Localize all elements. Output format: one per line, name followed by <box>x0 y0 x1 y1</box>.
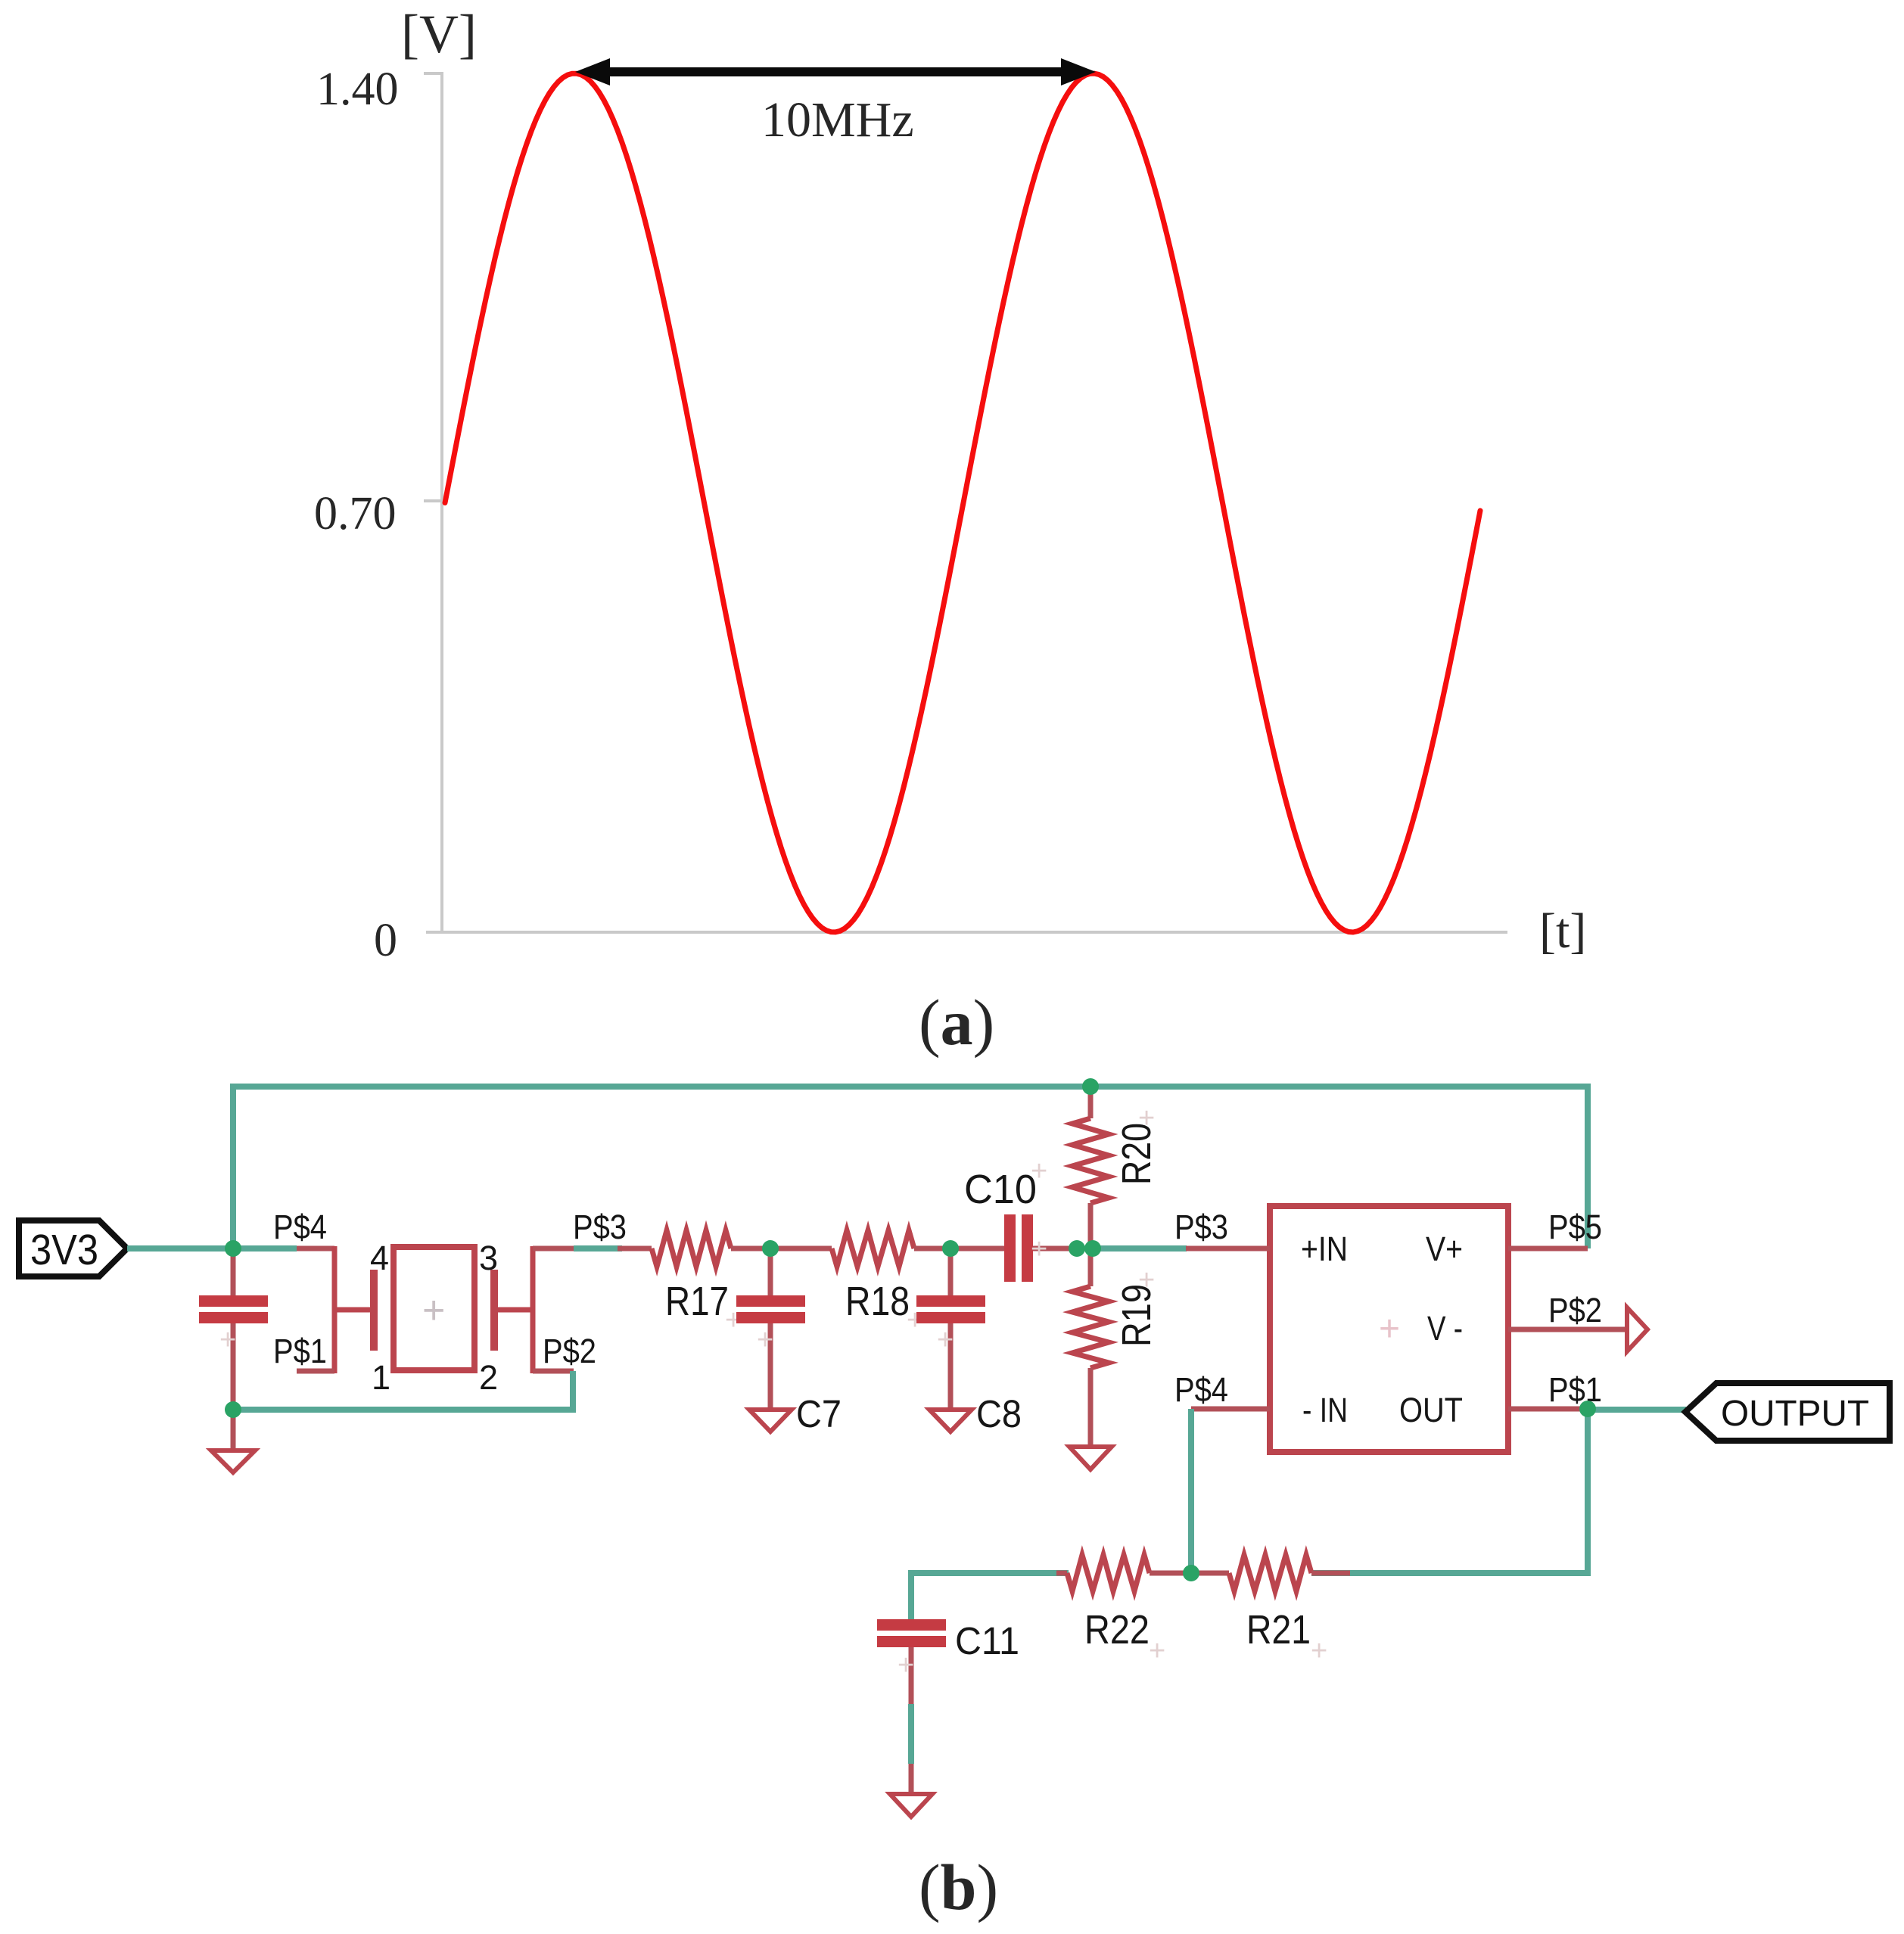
svg-text:R21: R21 <box>1246 1607 1311 1653</box>
resistor R18 <box>832 1230 1004 1267</box>
svg-text:2: 2 <box>479 1358 498 1397</box>
op-amp pin V- <box>1508 1327 1627 1332</box>
svg-text:+: + <box>1031 1233 1047 1265</box>
junction R17 C7 <box>762 1240 779 1257</box>
resistor R21 <box>1229 1555 1350 1591</box>
svg-text:+: + <box>937 1324 954 1356</box>
svg-text:+: + <box>1379 1309 1400 1349</box>
capacitor C7 <box>736 1248 805 1410</box>
junction OUT <box>1579 1401 1596 1417</box>
resistor R17 <box>618 1230 832 1267</box>
wire 3V3 to crystal <box>127 1245 297 1252</box>
svg-text:P$4: P$4 <box>1174 1370 1228 1409</box>
svg-text:C10: C10 <box>964 1167 1037 1212</box>
wire crystal P$2 to ground rail <box>233 1371 573 1410</box>
svg-text:P$2: P$2 <box>543 1332 596 1370</box>
wire top supply rail <box>233 1087 1588 1248</box>
svg-text:+: + <box>422 1289 445 1332</box>
resistor R20 <box>1072 1087 1109 1248</box>
svg-text:P$1: P$1 <box>273 1332 327 1370</box>
wire -IN down to feedback node <box>1188 1409 1194 1573</box>
supply flag 3V3 <box>19 1220 127 1276</box>
ground symbol C8 <box>929 1410 972 1432</box>
junction R18 C8 <box>942 1240 959 1257</box>
op-amp pin V+ <box>1508 1246 1588 1252</box>
svg-text:3V3: 3V3 <box>30 1226 98 1274</box>
period arrow 10MHz <box>575 58 1096 86</box>
svg-text:(b): (b) <box>919 1851 998 1923</box>
svg-text:OUT: OUT <box>1399 1391 1463 1429</box>
ground symbol at bypass cap <box>211 1410 255 1472</box>
wire feedback row to C11 <box>911 1573 1069 1619</box>
junction 3V3 node <box>225 1240 241 1257</box>
svg-text:4: 4 <box>370 1239 389 1277</box>
ground symbol C7 <box>749 1410 792 1432</box>
ground symbol C11 <box>890 1764 932 1817</box>
sine waveform <box>445 73 1480 932</box>
svg-text:V+: V+ <box>1426 1230 1463 1268</box>
y-axis <box>424 72 442 932</box>
svg-text:P$4: P$4 <box>273 1208 327 1246</box>
svg-text:R18: R18 <box>845 1279 910 1324</box>
junction R20 R19 <box>1084 1240 1101 1257</box>
svg-text:+: + <box>1149 1635 1165 1667</box>
svg-text:0.70: 0.70 <box>314 488 397 539</box>
wire C11 lower lead <box>908 1704 914 1764</box>
svg-text:0: 0 <box>374 915 397 966</box>
resistor R19 <box>1072 1248 1109 1447</box>
svg-text:3: 3 <box>479 1239 498 1277</box>
svg-text:P$3: P$3 <box>573 1208 627 1246</box>
svg-text:- IN: - IN <box>1302 1391 1348 1429</box>
capacitor C10 series <box>1004 1214 1079 1282</box>
svg-text:(a): (a) <box>919 986 994 1059</box>
svg-text:[V]: [V] <box>401 4 477 64</box>
svg-text:P$1: P$1 <box>1548 1370 1602 1409</box>
wire OUT down to feedback row <box>1311 1409 1588 1573</box>
crystal X1 <box>297 1246 574 1373</box>
capacitor bypass at 3V3 node <box>199 1248 268 1410</box>
op-amp pin OUT <box>1508 1407 1588 1412</box>
junction top rail R20 <box>1082 1078 1099 1095</box>
junction C10 out <box>1069 1240 1085 1257</box>
ground symbol R19 <box>1069 1447 1112 1469</box>
svg-text:R22: R22 <box>1084 1607 1150 1653</box>
svg-text:[t]: [t] <box>1539 903 1586 959</box>
svg-text:+: + <box>898 1649 914 1681</box>
junction feedback node <box>1183 1565 1199 1581</box>
svg-text:+: + <box>219 1324 236 1356</box>
wire OUT to OUTPUT flag <box>1588 1407 1686 1413</box>
op-amp U1 body <box>1270 1206 1508 1452</box>
output flag OUTPUT <box>1685 1383 1890 1441</box>
op-amp pin -IN <box>1191 1407 1270 1412</box>
svg-text:+: + <box>1031 1155 1047 1187</box>
resistor R22 <box>1056 1555 1229 1591</box>
wire node to op-amp +IN <box>1094 1245 1187 1252</box>
svg-text:R17: R17 <box>665 1279 729 1324</box>
op-amp pin +IN <box>1186 1246 1270 1252</box>
svg-text:+: + <box>1311 1635 1327 1667</box>
svg-text:V -: V - <box>1427 1309 1463 1348</box>
svg-text:P$2: P$2 <box>1548 1291 1602 1329</box>
svg-text:10MHz: 10MHz <box>761 92 914 148</box>
svg-text:P$3: P$3 <box>1174 1208 1228 1246</box>
svg-text:C7: C7 <box>796 1392 842 1435</box>
junction ground rail <box>225 1401 241 1418</box>
svg-text:C8: C8 <box>976 1392 1022 1435</box>
svg-text:1: 1 <box>372 1358 390 1397</box>
pin direction arrow P$2 <box>1627 1307 1647 1351</box>
svg-text:1.40: 1.40 <box>316 64 399 115</box>
svg-text:+: + <box>757 1324 773 1356</box>
wire crystal P$3 to R17 <box>574 1245 622 1252</box>
capacitor C8 <box>916 1248 985 1410</box>
svg-text:+: + <box>1138 1264 1155 1296</box>
svg-text:OUTPUT: OUTPUT <box>1721 1394 1869 1434</box>
capacitor C11 <box>877 1619 946 1704</box>
x-axis <box>426 931 1507 934</box>
svg-text:C11: C11 <box>955 1619 1019 1662</box>
svg-text:+IN: +IN <box>1301 1230 1348 1268</box>
svg-text:P$5: P$5 <box>1548 1208 1602 1246</box>
svg-text:+: + <box>1138 1102 1155 1134</box>
